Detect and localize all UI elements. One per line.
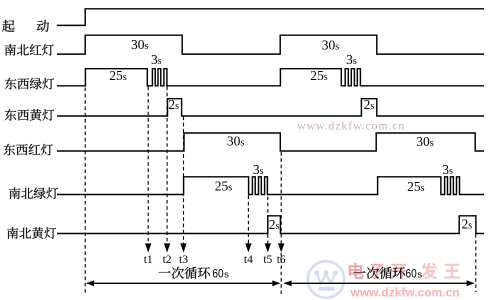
svg-text:t1: t1 bbox=[144, 254, 153, 266]
svg-text:www.dzkfw.com.cn: www.dzkfw.com.cn bbox=[350, 286, 460, 300]
svg-text:t5: t5 bbox=[263, 254, 272, 266]
cycle labels bbox=[159, 267, 210, 279]
t1-t6 arrows bbox=[145, 243, 284, 252]
waveform row 1: qidong (start) bbox=[57, 9, 484, 26]
waveform row 3: EW green bbox=[57, 69, 484, 86]
waveform row 4: EW yellow bbox=[57, 99, 484, 116]
duration labels bbox=[109, 37, 472, 232]
label 东西红灯 bbox=[3, 144, 15, 156]
svg-text:60s: 60s bbox=[212, 267, 229, 281]
svg-text:60s: 60s bbox=[406, 267, 423, 281]
watermark logo W circle bbox=[308, 261, 345, 298]
cycle double arrows 60s bbox=[87, 282, 279, 284]
waveform row 5: EW red bbox=[57, 133, 484, 151]
watermark red brand chars bbox=[349, 263, 364, 279]
svg-text:t2: t2 bbox=[163, 254, 172, 266]
svg-text:t3: t3 bbox=[179, 254, 188, 266]
svg-text:t4: t4 bbox=[244, 254, 253, 266]
waveform row 7: NS yellow bbox=[57, 216, 484, 234]
svg-text:www.dzkfw.com.cn: www.dzkfw.com.cn bbox=[297, 119, 405, 133]
label 东西绿灯 bbox=[5, 78, 17, 90]
dashed time guides bbox=[85, 87, 476, 296]
label 南北绿灯 bbox=[9, 187, 20, 199]
waveform row 6: NS green bbox=[57, 177, 484, 195]
label 东西黄灯 bbox=[5, 109, 17, 121]
label qi dong (start) bbox=[2, 20, 14, 32]
svg-text:t6: t6 bbox=[277, 254, 286, 266]
waveform row 2: NS red bbox=[57, 35, 484, 54]
label 南北黄灯 bbox=[7, 227, 18, 239]
label 南北红灯 bbox=[5, 44, 16, 56]
